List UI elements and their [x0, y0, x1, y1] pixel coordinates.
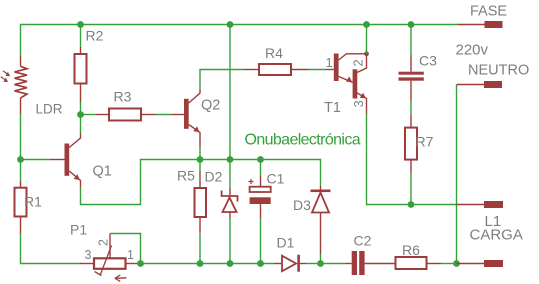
pin label 2 (T1): [351, 59, 366, 66]
svg-text:R7: R7: [416, 134, 434, 150]
label P1: [70, 222, 87, 238]
wire node A to R1: [20, 160, 22, 182]
diode D3: [311, 186, 331, 264]
node F junction (D1/D3/C2): [317, 260, 324, 267]
resistor R6: [396, 257, 442, 269]
label R2: [86, 28, 104, 44]
junction P1 out: [137, 260, 144, 267]
svg-text:R2: R2: [86, 28, 104, 44]
transistor Q2: [172, 90, 200, 148]
terminal L1 top (carga): [457, 201, 504, 208]
pin label 2 (P1): [97, 239, 111, 246]
svg-text:3: 3: [351, 100, 366, 107]
wire node B to R3: [81, 114, 97, 116]
node G junction (neutral/load): [453, 260, 460, 267]
label T1: [324, 100, 341, 116]
svg-text:1: 1: [326, 55, 333, 70]
label R4: [265, 45, 283, 61]
label Q2: [201, 98, 220, 114]
wire LDR to node A: [20, 114, 22, 160]
resistor R1: [15, 181, 27, 233]
terminal FASE: [458, 21, 503, 28]
LDR (photoresistor): [1, 56, 27, 114]
resistor R5: [195, 160, 207, 264]
svg-text:D1: D1: [277, 235, 295, 251]
svg-text:D3: D3: [293, 197, 311, 213]
wire bottom rail (P1 to D1): [141, 263, 274, 265]
node D junction (D2 top): [227, 156, 234, 163]
junction D2 bottom: [227, 260, 234, 267]
wire C3 to R7: [410, 101, 412, 115]
junction R2 top: [77, 21, 84, 28]
svg-text:LDR: LDR: [36, 102, 63, 117]
svg-text:Q1: Q1: [93, 164, 112, 180]
wire node D to C1 and D3: [200, 159, 321, 161]
pin label 1 (T1): [326, 55, 333, 70]
svg-text:3: 3: [85, 248, 92, 262]
transistor Q1: [50, 133, 81, 187]
label R7: [416, 134, 434, 150]
label CARGA: [470, 227, 523, 244]
junction T1 top: [363, 21, 370, 28]
resistor R2: [75, 47, 87, 102]
label R6: [402, 242, 420, 258]
wire T1 pin3 down to output node: [367, 113, 457, 205]
junction top rail / D2 branch: [227, 21, 234, 28]
wire R6 to node G: [441, 263, 457, 265]
label 220v: [456, 42, 489, 59]
node B junction (R2/R3/Q1 collector): [77, 111, 84, 118]
wire R4 to T1 pin1: [308, 69, 326, 71]
label L1: [485, 213, 502, 230]
wire Q2 collector up and to R4: [200, 70, 244, 91]
svg-text:Onubaelectrónica: Onubaelectrónica: [245, 132, 361, 149]
terminal L1 bottom (carga return): [457, 260, 504, 267]
svg-text:R6: R6: [402, 242, 420, 258]
svg-text:R4: R4: [265, 45, 283, 61]
zener diode D2: [222, 160, 238, 264]
label R1: [24, 194, 42, 210]
junction C3 top: [408, 21, 415, 28]
label Onubaelectronica: [245, 132, 361, 149]
capacitor C3: [399, 55, 424, 101]
junction output node: [408, 201, 415, 208]
wire P1 pin2 loop: [110, 234, 141, 264]
svg-text:R1: R1: [24, 194, 42, 210]
wire node F to C2: [321, 263, 346, 265]
wire top rail to D2 node: [229, 25, 231, 160]
label D2: [205, 169, 223, 185]
label LDR: [36, 102, 63, 117]
resistor R3: [96, 109, 155, 121]
svg-text:C1: C1: [267, 171, 285, 187]
svg-text:CARGA: CARGA: [470, 227, 523, 244]
pin label 3 (T1): [351, 100, 366, 107]
wire C3 top: [410, 25, 412, 56]
wire R2 bottom to node B: [80, 102, 82, 115]
label Q1: [93, 164, 112, 180]
wire Q1 emitter loop to node C: [81, 160, 201, 205]
resistor R4: [244, 64, 308, 75]
svg-text:R3: R3: [114, 89, 132, 105]
wire R2 top: [80, 25, 82, 48]
label D3: [293, 197, 311, 213]
svg-text:T1: T1: [324, 100, 341, 116]
wire NEUTRO vertical: [456, 85, 458, 264]
resistor R7: [405, 114, 417, 172]
triac T1: [326, 51, 369, 113]
svg-text:1: 1: [127, 248, 134, 262]
capacitor C2: [345, 251, 396, 275]
svg-text:NEUTRO: NEUTRO: [468, 63, 529, 79]
wire T1 top to rail: [366, 25, 368, 54]
node A junction (LDR/R1/Q1 base): [17, 156, 24, 163]
wire D1 to node F: [306, 263, 321, 265]
wire top rail: [21, 25, 459, 57]
svg-text:C2: C2: [354, 233, 372, 249]
label C3: [419, 53, 437, 69]
label C2: [354, 233, 372, 249]
terminal NEUTRO: [457, 81, 503, 88]
svg-text:D2: D2: [205, 169, 223, 185]
label R3: [114, 89, 132, 105]
wire D3 branch down: [320, 159, 322, 186]
svg-text:FASE: FASE: [470, 4, 507, 20]
pin label 3 (P1): [85, 248, 92, 262]
junction R5 bottom: [197, 260, 204, 267]
label D1: [277, 235, 295, 251]
pin label 1 (P1): [127, 248, 134, 262]
diode D1: [274, 255, 307, 272]
svg-text:2: 2: [351, 59, 366, 66]
trimmer potentiometer P1: [80, 234, 138, 282]
electrolytic capacitor C1: [249, 160, 271, 264]
node C junction (Q1 emitter / Q2 emitter / R5): [197, 156, 204, 163]
label FASE: [470, 4, 507, 20]
wire Q1 collector to node B: [80, 115, 82, 134]
label R5: [177, 168, 195, 184]
svg-text:C3: C3: [419, 53, 437, 69]
svg-text:2: 2: [97, 239, 111, 246]
svg-text:220v: 220v: [456, 42, 489, 59]
label C1: [267, 171, 285, 187]
junction C1 bottom / D1 anode: [257, 260, 264, 267]
wire Q1 base from node A: [21, 159, 50, 161]
wire R3 to Q2 base: [155, 114, 172, 116]
svg-text:R5: R5: [177, 168, 195, 184]
svg-text:Q2: Q2: [201, 98, 220, 114]
node E junction (C1 top): [257, 156, 264, 163]
wire R7 to output node: [410, 173, 412, 205]
wire R1 to bottom rail: [21, 233, 81, 264]
svg-text:P1: P1: [70, 222, 87, 238]
label NEUTRO: [468, 63, 529, 79]
wire Q2 emitter to node C: [199, 148, 201, 160]
